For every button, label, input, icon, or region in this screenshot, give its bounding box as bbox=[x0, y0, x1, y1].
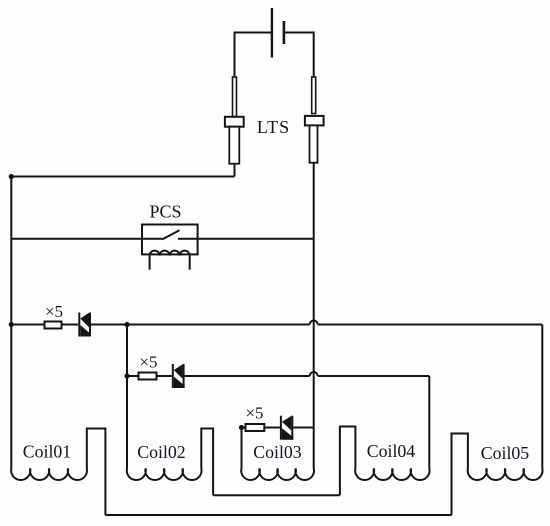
node dot branch2 tap bbox=[124, 373, 129, 378]
node dot top-left corner bbox=[9, 174, 14, 179]
coil Coil05 winding bbox=[468, 469, 543, 480]
current lead LTS left: thin tube bbox=[233, 77, 237, 117]
wire branch1 right segment bbox=[91, 324, 310, 326]
wire Coil03 left riser bbox=[241, 428, 243, 469]
wire top-left horizontal bbox=[11, 176, 234, 178]
wire bottom bus (lower) bbox=[105, 514, 451, 516]
PCS heater lead right bbox=[189, 256, 191, 270]
battery BT1 short plate bbox=[283, 21, 286, 44]
svg-text:×5: ×5 bbox=[245, 404, 263, 423]
svg-text:×5: ×5 bbox=[45, 302, 63, 321]
diode pair D1 bbox=[78, 313, 91, 337]
node dot branch3 at Coil03 riser bbox=[239, 425, 244, 430]
PCS heater winding bbox=[150, 251, 190, 256]
wire PCS row right bbox=[178, 238, 314, 240]
coil Coil01 winding bbox=[11, 469, 87, 480]
wire Coil05 right riser bbox=[541, 325, 543, 469]
switch blade PCS bbox=[162, 230, 180, 239]
wire hop over right rail (branch2) bbox=[310, 372, 318, 376]
wire branch1 to Coil05 bbox=[318, 324, 543, 326]
current lead LTS right: thin tube bbox=[312, 77, 316, 114]
svg-text:Coil05: Coil05 bbox=[481, 443, 530, 463]
wire branch2 right segment bbox=[185, 375, 310, 377]
current lead LTS left: collar box bbox=[225, 117, 244, 127]
PCS heater lead left bbox=[149, 256, 151, 270]
wire jog Coil02 to middle bus bbox=[201, 429, 213, 496]
resistor R2 bbox=[139, 373, 157, 380]
resistor R3 bbox=[246, 424, 265, 431]
wire Coil04 right riser bbox=[428, 376, 430, 469]
coil Coil04 winding bbox=[355, 469, 429, 480]
diode pair D2 bbox=[172, 364, 185, 388]
svg-text:Coil04: Coil04 bbox=[367, 441, 416, 461]
node dot branch1 at left rail bbox=[9, 322, 14, 327]
wire hop over right rail (branch1) bbox=[310, 321, 318, 325]
current lead LTS right: lower tube bbox=[310, 125, 318, 162]
wire jog bus to Coil04 bbox=[340, 427, 356, 496]
wire jog bus to Coil05 bbox=[452, 434, 468, 516]
wire Coil02 left riser bbox=[126, 325, 128, 469]
svg-text:Coil03: Coil03 bbox=[253, 442, 302, 462]
wire LTS left bottom bbox=[234, 164, 236, 177]
battery BT1 long plate bbox=[271, 8, 273, 58]
PCS enclosure box bbox=[142, 225, 198, 255]
wire battery left bbox=[235, 33, 272, 78]
wire R1 to D1 bbox=[62, 324, 79, 326]
svg-text:Coil02: Coil02 bbox=[137, 442, 185, 462]
wire D3 to right rail bbox=[293, 427, 313, 429]
svg-text:Coil01: Coil01 bbox=[23, 442, 71, 462]
wire jog Coil01 to bottom bus bbox=[87, 429, 106, 516]
node dot branch1 / Coil02 tap bbox=[124, 322, 129, 327]
current lead LTS right: collar box bbox=[305, 116, 324, 126]
resistor R1 bbox=[45, 322, 62, 329]
coil Coil03 winding bbox=[241, 469, 314, 480]
coil Coil02 winding bbox=[127, 469, 202, 480]
wire branch2 to R2 bbox=[127, 375, 139, 377]
wire PCS row left bbox=[11, 238, 162, 240]
wire right rail bbox=[313, 163, 315, 469]
svg-text:LTS: LTS bbox=[257, 117, 290, 137]
wire branch2 to Coil04 bbox=[318, 375, 430, 377]
current lead LTS left: lower tube bbox=[229, 127, 239, 164]
svg-text:PCS: PCS bbox=[149, 202, 181, 222]
wire R2 to D2 bbox=[157, 375, 172, 377]
wire branch3 to R3 bbox=[242, 427, 246, 429]
wire R3 to D3 bbox=[264, 427, 280, 429]
diode pair D3 bbox=[280, 416, 293, 440]
wire middle bus bbox=[213, 494, 340, 496]
wire battery right bbox=[285, 33, 314, 78]
svg-text:×5: ×5 bbox=[139, 353, 157, 372]
wire left rail bbox=[10, 177, 12, 469]
wire branch1 to R1 bbox=[11, 324, 44, 326]
